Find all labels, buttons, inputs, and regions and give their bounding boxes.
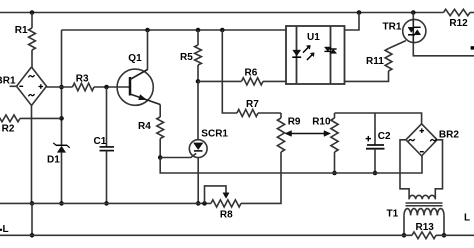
resistor R12 [444, 9, 471, 15]
svg-text:R12: R12 [449, 18, 468, 29]
zener diode D1 [57, 146, 65, 152]
resistor R7 [237, 109, 258, 116]
potentiometer R8 [211, 200, 241, 207]
wire R3 to Q1 base [94, 86, 130, 88]
wire BR1 vertical to bottom rail [31, 203, 33, 235]
wire low rail [0, 202, 211, 204]
wire BR1 to R3 [47, 86, 73, 88]
wire R1 to BR1 [31, 50, 33, 68]
cut label fragment right edge [471, 46, 474, 49]
svg-text:U1: U1 [307, 32, 320, 43]
wire T1 secondary right lead [443, 215, 445, 235]
wire bottom rail (line L) [0, 234, 412, 236]
bridge rectifier BR1 [17, 67, 47, 106]
wire SCR cathode [197, 158, 199, 204]
resistor R6 [242, 78, 264, 85]
resistor R13 [412, 232, 436, 239]
wire R8 wiper loop [205, 186, 227, 204]
node second rail / Q1 collector [145, 28, 150, 33]
svg-text:R9: R9 [288, 116, 301, 127]
node D1 vertical / base rail [59, 85, 64, 90]
wire C1 bottom lead [106, 151, 108, 204]
wire R10 top lead [334, 113, 336, 118]
wire R11 to TR1 gate [389, 41, 406, 49]
svg-text:C2: C2 [378, 131, 391, 142]
wire Q1 collector [147, 30, 149, 70]
node D1 / low rail [59, 201, 64, 206]
svg-text:SCR1: SCR1 [201, 128, 228, 139]
svg-text:Q1: Q1 [128, 53, 142, 64]
node secondary left / bottom rail [402, 233, 407, 238]
diac U1 detector [324, 47, 331, 51]
node second rail / R7 [220, 28, 225, 33]
node R5 / R6 / SCR anode [196, 79, 201, 84]
resistor R3 [73, 83, 95, 91]
wire top rail right of R12 [470, 12, 474, 14]
wire R1 top lead [31, 13, 33, 29]
wire trigger rail [160, 156, 422, 173]
node second rail / R5 [196, 28, 201, 33]
wire bottom rail right [436, 234, 474, 236]
wire U1 bottom right pin to R11 [345, 71, 389, 81]
svg-text:R5: R5 [180, 52, 193, 63]
svg-text:BR2: BR2 [439, 129, 459, 140]
wire R5 to junction [197, 65, 199, 81]
transformer T1 core [406, 202, 443, 204]
triac TR1 [403, 19, 426, 42]
wire C1 top lead [106, 87, 108, 147]
resistor R1 [29, 28, 36, 50]
wiper arrow R9-R10 [289, 133, 326, 135]
node base rail / C1 [104, 85, 109, 90]
svg-text:C1: C1 [94, 136, 107, 147]
wire C2 bottom lead [374, 149, 376, 173]
wire C2 top lead [374, 113, 376, 145]
wire second rail to U1 anode [62, 29, 287, 31]
svg-text:R4: R4 [138, 121, 151, 132]
transistor Q1 [117, 69, 153, 105]
svg-text:R3: R3 [76, 73, 89, 84]
svg-text:L: L [3, 224, 9, 235]
wire BR2 right ac [435, 140, 442, 200]
wire R6 left lead [198, 80, 242, 82]
wire R7 to R9 [258, 112, 281, 114]
thyristor SCR1 [189, 140, 207, 158]
wire R9 top lead [280, 113, 282, 118]
diode LED U1 emitter [293, 50, 301, 56]
capacitor C2 [367, 144, 384, 146]
wire R2 to D1 vertical [20, 117, 62, 119]
wire R10 to BR2 top [335, 113, 422, 124]
wire R4 to gate node [159, 139, 161, 158]
wire R9 bottom to R8 [241, 152, 281, 203]
LED light arrows [303, 47, 309, 53]
capacitor C1 [100, 146, 115, 148]
bridge rectifier BR2 [406, 124, 437, 156]
wire R6 to U1 [263, 80, 286, 82]
node top rail / TR1 [411, 10, 416, 15]
svg-text:R6: R6 [245, 68, 258, 79]
node C2 / trigger rail [373, 171, 378, 176]
transformer T1 secondary [404, 209, 444, 216]
wire D1 vertical upper [61, 30, 63, 145]
node BR1 vertical / bottom rail [30, 233, 35, 238]
wire Q1 emitter to R4 [159, 105, 161, 118]
node BR1 vertical / low rail [30, 201, 35, 206]
resistor R5 [195, 45, 202, 65]
node SCR cathode / low rail [196, 201, 201, 206]
wire R7 vertical [222, 30, 237, 113]
wire T1 secondary left lead [403, 215, 405, 235]
potentiometer R10 [331, 118, 338, 152]
wire TR1 bottom to right edge [413, 43, 474, 56]
wire SCR1 gate [160, 153, 196, 157]
svg-text:R13: R13 [416, 222, 435, 233]
svg-text:R1: R1 [15, 25, 28, 36]
node top rail / U1 pin wire [357, 10, 362, 15]
resistor R4 [157, 117, 164, 139]
potentiometer R9 [277, 118, 284, 152]
wire R5 top lead [197, 30, 199, 45]
wire BR1 bottom vertical [31, 106, 33, 204]
svg-text:R8: R8 [220, 210, 233, 221]
transformer T1 primary [409, 195, 435, 199]
svg-text:L: L [464, 213, 470, 224]
svg-text:T1: T1 [387, 208, 399, 219]
node top rail / R1 [30, 10, 35, 15]
node secondary right / bottom rail [442, 233, 447, 238]
node R10 / trigger rail [332, 171, 337, 176]
op-amp U1 optocoupler package [286, 26, 345, 84]
resistor R11 [385, 49, 392, 72]
wire R10 bottom lead [334, 152, 336, 173]
svg-text:R2: R2 [2, 123, 15, 134]
wire D1 to low rail [61, 152, 63, 203]
svg-text:R7: R7 [246, 99, 259, 110]
svg-text:D1: D1 [47, 155, 60, 166]
node D1 vertical / R2 [59, 116, 64, 121]
svg-text:BR1: BR1 [0, 76, 16, 87]
wire TR1 top lead [412, 13, 414, 20]
node R8 wiper tap / low rail [202, 201, 207, 206]
wire U1 top right pin to top rail [345, 13, 360, 31]
svg-text:R10: R10 [312, 116, 331, 127]
svg-text:TR1: TR1 [383, 22, 402, 33]
node R4 / SCR gate [158, 155, 163, 160]
wire BR2 left ac [400, 140, 409, 200]
svg-text:R11: R11 [366, 56, 384, 67]
wire SCR anode [197, 81, 199, 139]
node C1 / low rail [104, 201, 109, 206]
resistor R2 [0, 115, 20, 122]
wire BR1 left stub [10, 85, 17, 87]
wire top rail (AC line A) [0, 12, 444, 14]
